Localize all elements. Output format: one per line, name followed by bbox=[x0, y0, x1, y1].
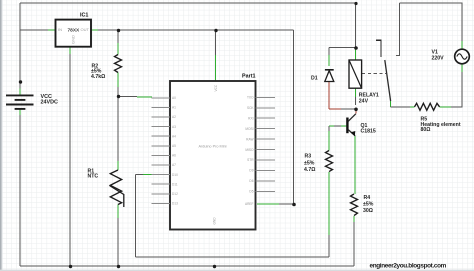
wire: green stub above battery bbox=[19, 89, 21, 96]
svg-text:GND: GND bbox=[71, 35, 76, 44]
node: junction dot collector bbox=[354, 108, 358, 112]
wire: left vertical rail from top rail to battery bbox=[19, 3, 21, 95]
svg-text:A0: A0 bbox=[172, 96, 176, 100]
wire: IC1 OUT rail going right bbox=[98, 29, 294, 31]
svg-text:D11: D11 bbox=[172, 182, 178, 186]
svg-text:A1: A1 bbox=[172, 106, 176, 110]
wire: base wire dark middle bbox=[334, 125, 341, 127]
wire: switch pole green stub bbox=[390, 100, 392, 107]
wire: emitter green lead down to R4 bbox=[354, 136, 356, 194]
wire: A0 wire from R2 junction to Arduino bbox=[118, 96, 137, 98]
svg-text:RAW: RAW bbox=[246, 137, 253, 141]
wire: R2 to junction with A0 wire bbox=[117, 87, 119, 96]
wire: base wire green stub left bbox=[329, 125, 334, 127]
svg-text:STR: STR bbox=[247, 158, 254, 162]
svg-text:MISO: MISO bbox=[245, 148, 254, 152]
svg-text:±5%: ±5% bbox=[304, 160, 315, 166]
svg-text:D10: D10 bbox=[172, 173, 178, 177]
switch SW1 left throw stub bbox=[376, 40, 381, 57]
wire: R5 right green lead bbox=[440, 106, 452, 108]
Arduino left pin lines bbox=[152, 98, 171, 204]
transistor Q1 bbox=[346, 118, 348, 134]
svg-text:24V: 24V bbox=[359, 98, 369, 104]
labels: Arduino left pins bbox=[172, 96, 178, 206]
svg-text:A7: A7 bbox=[172, 163, 176, 167]
wire: R2 column upper dark bbox=[117, 30, 119, 43]
svg-text:IN: IN bbox=[58, 27, 62, 32]
svg-text:D6: D6 bbox=[249, 179, 253, 183]
svg-text:SCK: SCK bbox=[247, 106, 254, 110]
svg-text:78XX: 78XX bbox=[68, 27, 81, 33]
wire: R4 bottom to ground rail bbox=[353, 222, 355, 266]
svg-text:GND: GND bbox=[212, 217, 216, 225]
wire: R3 top to base wire corner bbox=[328, 126, 330, 131]
svg-text:NTC: NTC bbox=[88, 174, 99, 180]
wire: D1/coil top wire bbox=[329, 47, 356, 49]
node: junction dot R2 top bbox=[117, 29, 120, 32]
svg-text:AREF: AREF bbox=[245, 202, 254, 206]
svg-text:A6: A6 bbox=[172, 154, 176, 158]
regulator IC1 box bbox=[56, 20, 92, 47]
svg-text:RXI: RXI bbox=[248, 116, 253, 120]
wire: R3 top green lead bbox=[328, 131, 330, 151]
wire: V1 top green lead bbox=[461, 41, 463, 49]
svg-text:MOSI: MOSI bbox=[245, 127, 253, 131]
wire: collector red stub bbox=[355, 109, 357, 114]
AC source V1 bbox=[455, 49, 470, 64]
wire: IC1 input wire from left rail bbox=[20, 29, 48, 31]
node: junction dot R2 bottom / A0 bbox=[117, 95, 120, 98]
wire: D10 pin wire green part bbox=[143, 174, 152, 176]
node: dot at top rail corner bbox=[354, 2, 357, 5]
wire: R2 bottom green lead bbox=[117, 73, 119, 88]
svg-text:80Ω: 80Ω bbox=[421, 127, 431, 133]
thermistor R1 NTC bbox=[110, 170, 121, 205]
wire: D10 pin wire to left bend bbox=[136, 174, 144, 176]
wire: green stub from IC1 OUT pin bbox=[91, 29, 98, 31]
node: junction dot coil top bbox=[354, 46, 358, 50]
svg-text:OUT: OUT bbox=[81, 27, 90, 32]
wire: R3 bottom long green lead bbox=[328, 172, 330, 235]
thermistor R1 strike line bbox=[110, 186, 124, 208]
wire: coil top green stub bbox=[355, 48, 357, 60]
page bottom edge shading bbox=[0, 270, 474, 271]
switch SW1 moving arm bbox=[385, 60, 391, 101]
svg-text:D5: D5 bbox=[249, 190, 253, 194]
svg-text:Part1: Part1 bbox=[242, 74, 256, 80]
wire: column between R2 and R1 bbox=[117, 96, 119, 161]
svg-text:engineer2you.blogspot.com: engineer2you.blogspot.com bbox=[370, 262, 447, 269]
wire: battery negative drop to bottom rail bbox=[19, 115, 21, 266]
wire: R3 column dark lower part bbox=[328, 235, 330, 257]
svg-text:A5: A5 bbox=[172, 144, 176, 148]
node: junction dot IC1 GND at rail bbox=[69, 265, 72, 268]
wire: coil bottom wire red part bbox=[329, 108, 341, 110]
resistor R4 bbox=[351, 194, 358, 216]
wire: top VCC rail bbox=[20, 2, 356, 4]
resistor R2 bbox=[115, 55, 122, 73]
wire: R5 left green lead bbox=[410, 106, 415, 108]
wire: coil bottom to collector junction bbox=[355, 97, 357, 105]
svg-text:R4: R4 bbox=[364, 195, 371, 201]
svg-text:A3: A3 bbox=[172, 125, 176, 129]
wire: R1 bottom green lead bbox=[117, 205, 119, 219]
wire: A0 wire green part bbox=[137, 96, 152, 98]
wire: drop to Arduino VCC top pin bbox=[215, 30, 217, 55]
wire: coil bottom wire dark part bbox=[341, 108, 356, 110]
svg-text:220V: 220V bbox=[432, 55, 445, 61]
wire: battery negative green stub bbox=[19, 109, 21, 115]
wire: IC1 GND green stub bbox=[69, 47, 71, 54]
wire: drop from D10 wire to lower run bbox=[135, 175, 137, 258]
svg-text:D9: D9 bbox=[249, 169, 253, 173]
node: junction dot R1 at rail bbox=[117, 265, 120, 268]
wire: switch pole to R5 dark bbox=[391, 106, 410, 108]
switch SW1 right throw from top rail bbox=[396, 3, 400, 56]
node: junction dot at AREF wire bbox=[292, 203, 296, 207]
wire: D1 top green lead bbox=[328, 55, 330, 66]
resistor R5 (horizontal) bbox=[415, 103, 440, 110]
svg-text:24VDC: 24VDC bbox=[41, 100, 58, 106]
Arduino Part1 box bbox=[170, 81, 256, 230]
svg-text:C1815: C1815 bbox=[361, 129, 376, 135]
svg-text:4.7kΩ: 4.7kΩ bbox=[91, 74, 105, 80]
svg-text:Arduino Pro Mini: Arduino Pro Mini bbox=[198, 145, 226, 149]
wire: R1 bottom to ground rail bbox=[117, 218, 119, 266]
wire: R1 top green lead bbox=[117, 161, 119, 170]
wire: base wire green stub at transistor bbox=[341, 125, 347, 127]
wire: D1 top dark lead bbox=[328, 48, 330, 55]
wire: VCC drop to Arduino AREF pin bbox=[293, 30, 295, 204]
wire: top AC rail bbox=[400, 3, 463, 41]
wire: R2 top green lead bbox=[117, 43, 119, 55]
wire: AREF pin wire dark part bbox=[279, 203, 294, 205]
svg-text:4.7Ω: 4.7Ω bbox=[304, 167, 315, 173]
svg-text:D13: D13 bbox=[172, 202, 178, 206]
wire: AREF pin wire green part bbox=[257, 203, 279, 205]
wire: green part into Arduino top pin bbox=[215, 55, 217, 81]
node: junction dot Arduino VCC column bbox=[214, 29, 217, 32]
relay coil RELAY1 bbox=[349, 60, 362, 88]
wire: green stub into IC1 IN pin bbox=[48, 29, 56, 31]
page left edge shading bbox=[0, 0, 2, 271]
svg-text:D12: D12 bbox=[172, 192, 178, 196]
Arduino right pin lines bbox=[256, 97, 276, 191]
node: junction dot Arduino GND at rail bbox=[213, 265, 216, 268]
wire: R4 bottom green lead bbox=[353, 216, 355, 222]
wire: lower horizontal run to R3 bbox=[136, 256, 330, 258]
svg-text:VCC: VCC bbox=[214, 84, 218, 91]
resistor R3 bbox=[326, 151, 333, 172]
svg-text:D1: D1 bbox=[311, 75, 318, 81]
battery VCC 24VDC bbox=[6, 95, 34, 109]
node: bendpoint dot on left rail bbox=[19, 80, 22, 83]
svg-text:±5%: ±5% bbox=[363, 201, 374, 207]
wire: R5 to V1 bottom corner bbox=[451, 72, 462, 107]
diode D1 bbox=[325, 69, 334, 71]
svg-text:TXO: TXO bbox=[247, 96, 254, 100]
wire: D1 bottom red lead bbox=[328, 82, 330, 109]
wire: relay dashed actuation link bbox=[362, 73, 386, 75]
labels: Arduino right pins bbox=[245, 96, 254, 207]
wire: V1 bottom green lead bbox=[461, 64, 463, 72]
wire: coil bottom green stub bbox=[355, 88, 357, 97]
wire: IC1 GND drop to bottom rail bbox=[69, 54, 71, 266]
svg-text:A4: A4 bbox=[172, 134, 176, 138]
wire: coil column from top rail bbox=[355, 3, 357, 48]
wire: bottom ground rail bbox=[20, 265, 354, 267]
svg-text:30Ω: 30Ω bbox=[363, 208, 373, 214]
svg-text:R3: R3 bbox=[305, 154, 312, 160]
svg-text:IC1: IC1 bbox=[80, 12, 88, 18]
svg-text:A2: A2 bbox=[172, 115, 176, 119]
